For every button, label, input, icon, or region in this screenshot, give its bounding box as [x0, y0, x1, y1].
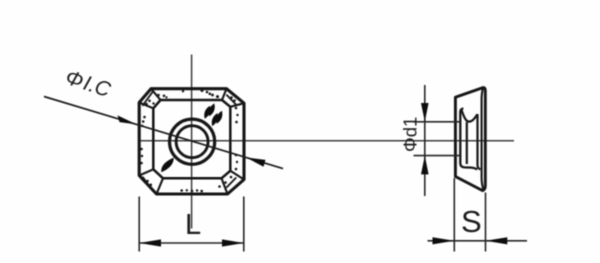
BR facet doubled hone line: [226, 178, 236, 188]
leader arrowhead left (tip on left flat): [118, 115, 137, 124]
S dimension arrowheads: [433, 237, 455, 244]
TL facet doubled hone line: [142, 91, 153, 106]
side view bore right silhouette: [466, 122, 468, 164]
logo mark: leaf (bottom left of face): [161, 158, 173, 173]
side view countersink curve top: [462, 110, 478, 122]
insert front view: inner octagon (face edge): [153, 100, 230, 178]
TR facet doubled hone line: [226, 95, 236, 105]
corner facet connectors TR: [222, 89, 227, 100]
L dimension arrowheads: [139, 239, 161, 246]
BL facet doubled hone line: [143, 177, 153, 191]
PHI d1 extension lines: [414, 121, 460, 123]
horizontal centerline through both views: [139, 140, 514, 142]
stipple dots on honed edge band: [140, 89, 239, 192]
svg-text:S: S: [461, 204, 482, 239]
L dimension extension lines: [138, 197, 140, 252]
leader line for inscribed circle: [44, 97, 283, 169]
L dimension line: [139, 242, 244, 244]
center hole: outer circle: [170, 119, 215, 164]
side view inner face vertical: [478, 114, 481, 169]
center hole: inner circle: [176, 126, 208, 158]
svg-text:L: L: [185, 209, 201, 241]
side view outline: [455, 88, 485, 191]
vertical centerline of front view: [191, 55, 193, 229]
corner facet connectors BR: [230, 171, 244, 180]
leader arrowhead right (tip on right flat): [246, 157, 266, 166]
corner facet connectors BL: [157, 178, 164, 194]
S dimension line: [428, 240, 528, 242]
S dimension extension lines: [453, 178, 455, 252]
insert front view: outer octagon outline: [139, 89, 244, 194]
logo mark: double zigzag (top right of face): [202, 102, 224, 127]
corner facet connectors TL: [139, 89, 244, 194]
side view bore left silhouette with hooks: [460, 109, 477, 170]
side view face boundary line right: [482, 89, 484, 190]
svg-text:Φd1: Φd1: [400, 117, 421, 152]
PHI d1 arrowheads: [421, 103, 429, 122]
PHI d1 dimension line: [424, 85, 426, 196]
